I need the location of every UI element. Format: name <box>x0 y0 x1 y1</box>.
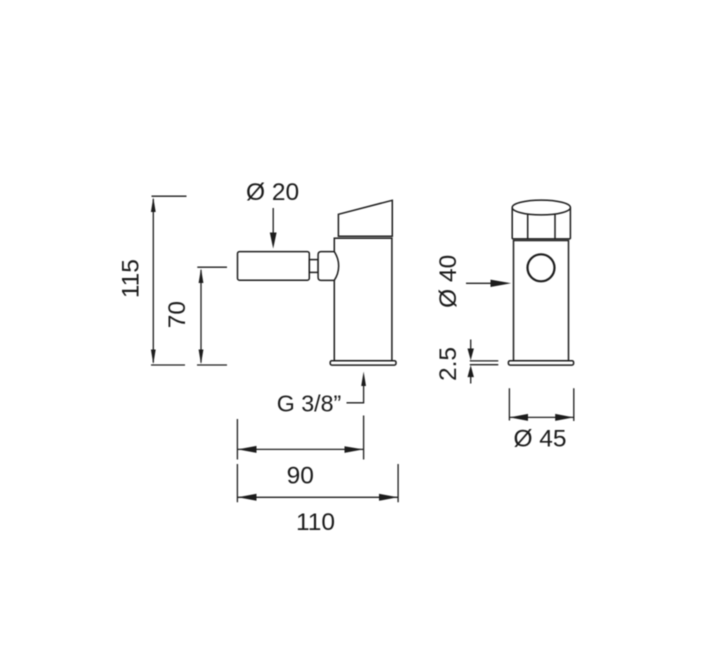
diameter 40 arrowhead <box>491 280 512 287</box>
svg-text:110: 110 <box>296 509 335 536</box>
dimension 110 line <box>237 496 398 498</box>
spout side view <box>338 200 392 236</box>
dimension 70 top arrowhead <box>199 268 204 283</box>
diameter 20 leader line <box>272 208 274 235</box>
aerator junction line <box>512 238 570 240</box>
dimension diameter 45 line <box>509 416 573 418</box>
svg-text:115: 115 <box>118 259 145 298</box>
dimension 110 left arrowhead <box>238 494 257 501</box>
base flange side view <box>330 361 396 365</box>
dimension 2.5 bottom arrowhead <box>468 365 474 377</box>
dimension 110 extension lines <box>237 464 398 502</box>
aerator hex sides <box>512 208 570 239</box>
dimension 2.5 extension lines <box>470 361 499 365</box>
G 3/8 leader <box>347 384 364 403</box>
body front view <box>514 241 569 361</box>
svg-text:90: 90 <box>287 463 314 490</box>
dimension 70 line <box>200 270 202 363</box>
svg-text:G 3/8”: G 3/8” <box>277 391 341 417</box>
svg-text:70: 70 <box>164 301 191 328</box>
dimension diameter 45 right arrowhead <box>555 414 573 421</box>
dimension 115 extension ticks <box>151 196 187 365</box>
diameter 20 arrowhead <box>270 233 277 249</box>
dimension 115 top arrowhead <box>151 197 156 212</box>
dimension 90 line <box>237 448 363 450</box>
dimension 115 line <box>152 199 154 363</box>
dimension 90 right arrowhead <box>345 446 364 453</box>
handle circle front view <box>528 254 555 281</box>
dimension 2.5 arrow stems <box>470 340 472 384</box>
svg-text:Ø 45: Ø 45 <box>513 426 566 453</box>
diameter 40 leader line <box>466 282 496 284</box>
handle joint <box>318 252 339 281</box>
dimension 70 extension ticks <box>197 267 227 365</box>
dimension diameter 45 extension lines <box>509 388 573 421</box>
body side view <box>334 238 392 361</box>
dimension diameter 45 left arrowhead <box>510 414 528 421</box>
dimension 70 bottom arrowhead <box>199 350 204 365</box>
handle neck <box>309 260 318 273</box>
base flange front view <box>508 361 573 365</box>
dimension 2.5 top arrowhead <box>468 349 474 361</box>
handle lever <box>238 252 310 281</box>
svg-text:Ø 40: Ø 40 <box>435 255 462 308</box>
dimension 90 left arrowhead <box>238 446 257 453</box>
svg-text:Ø 20: Ø 20 <box>246 179 299 206</box>
dimension 110 right arrowhead <box>379 494 398 501</box>
aerator top ellipse <box>512 200 570 215</box>
dimension 90 extension lines <box>237 416 363 460</box>
G 3/8 arrowhead <box>361 372 366 387</box>
dimension 115 bottom arrowhead <box>151 350 156 365</box>
svg-text:2.5: 2.5 <box>435 347 462 381</box>
